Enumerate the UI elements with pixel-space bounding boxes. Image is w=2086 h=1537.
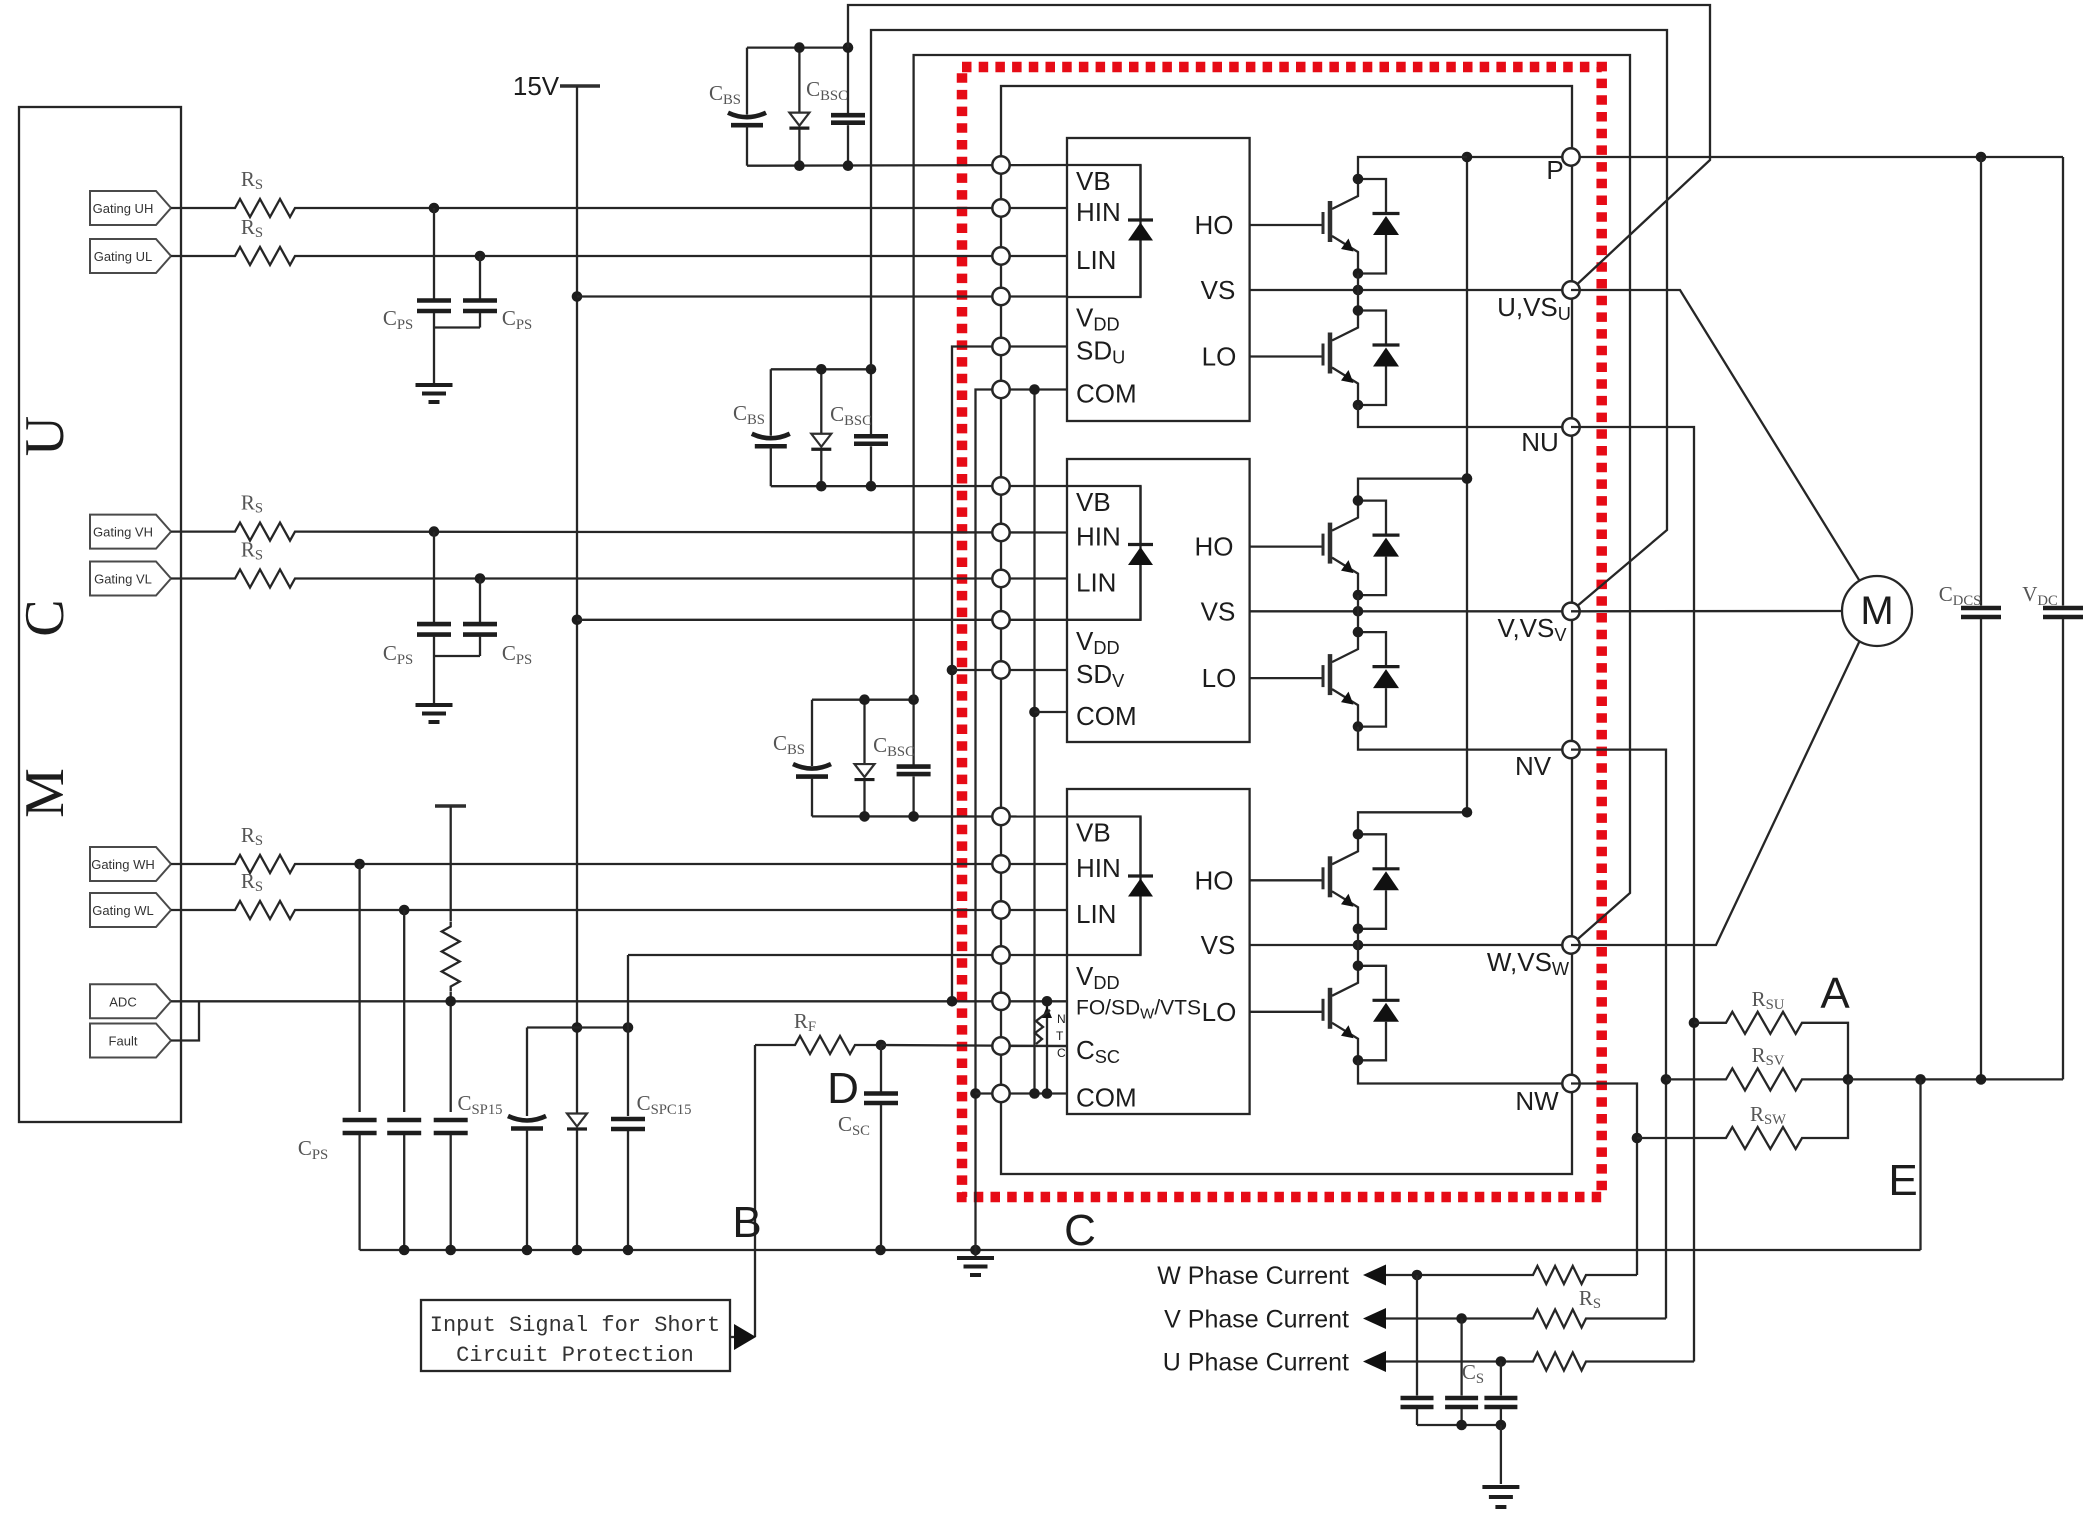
wire CSC junction to CSC pin — [881, 1045, 1067, 1046]
node bootstrap U bottom at CBSC — [843, 160, 854, 171]
capacitor Cs V — [1460, 1319, 1462, 1396]
capacitor CBS W — [811, 700, 813, 766]
node: emitter of QWH — [1353, 924, 1364, 935]
node V Phase Current filter tap — [1456, 1313, 1467, 1324]
capacitor CPS W3 — [434, 1118, 468, 1123]
node: collector of QWL — [1353, 961, 1364, 972]
capacitor CPS U-high — [433, 208, 435, 299]
arrow V Phase Current — [1363, 1308, 1386, 1329]
node P rail at CDCS — [1976, 152, 1987, 163]
ground (CPS U) — [416, 383, 453, 387]
node E tap — [1915, 1074, 1926, 1085]
node ground bus at COM3 line — [970, 1088, 981, 1099]
node 15V to VDD2 — [572, 615, 583, 626]
svg-text:Input Signal for Short: Input Signal for Short — [430, 1313, 720, 1338]
svg-text:D: D — [827, 1064, 859, 1113]
svg-text:CSC: CSC — [838, 1112, 870, 1139]
svg-text:HIN: HIN — [1076, 197, 1121, 227]
svg-text:Gating WH: Gating WH — [91, 857, 155, 872]
annotation box: Input Signal for Short Circuit Protection — [421, 1300, 730, 1371]
svg-text:CS: CS — [1462, 1360, 1484, 1387]
svg-text:CPS: CPS — [298, 1136, 328, 1163]
transistor QVH (IGBT) — [1332, 501, 1358, 531]
svg-text:NU: NU — [1521, 427, 1559, 457]
svg-text:Gating VL: Gating VL — [94, 572, 152, 587]
wire VS-V loop — [871, 30, 1667, 611]
node COM bus at COM2 — [1029, 707, 1040, 718]
svg-text:NW: NW — [1515, 1086, 1559, 1116]
transistor QWL (IGBT) — [1332, 966, 1358, 996]
node COM bus bottom — [1029, 1088, 1040, 1099]
node 15V tie to CSP15/CSPC15 — [572, 1022, 583, 1033]
node U Phase Current filter tap — [1496, 1356, 1507, 1367]
svg-text:HIN: HIN — [1076, 853, 1121, 883]
svg-text:CBS: CBS — [773, 731, 805, 758]
resistor RSV — [1666, 1078, 1721, 1080]
svg-text:A: A — [1820, 969, 1850, 1018]
capacitor CPS V-high — [433, 532, 435, 623]
node NV shunt tap — [1661, 1074, 1672, 1085]
node SD bus at FO line — [947, 996, 958, 1007]
resistor RF — [755, 1044, 790, 1046]
svg-text:Gating UH: Gating UH — [93, 201, 154, 216]
transistor QWH (IGBT) — [1332, 834, 1358, 864]
node VS at half-bridge U — [1353, 285, 1364, 296]
svg-text:RS: RS — [241, 538, 263, 564]
ground (current sense) — [1482, 1485, 1519, 1489]
antiparallel diode of QWL — [1358, 966, 1386, 1001]
wire Gating UL to IPM pin — [300, 255, 1067, 257]
IPM module outline box — [1001, 86, 1572, 1174]
wire bootstrap V top rail — [771, 368, 871, 370]
svg-text:Circuit Protection: Circuit Protection — [456, 1343, 694, 1368]
gate driver U3 input section box — [1067, 817, 1141, 956]
wire COM3 line — [976, 1092, 1068, 1094]
node COM bus top — [1029, 384, 1040, 395]
wire VS line W — [1250, 944, 1571, 946]
wire bootstrap W top rail — [812, 699, 914, 701]
svg-text:RS: RS — [241, 823, 263, 849]
wire Gating VH to IPM pin — [300, 530, 1067, 533]
svg-text:HO: HO — [1195, 210, 1234, 240]
node P bus top — [1462, 152, 1473, 163]
svg-text:CSPC15: CSPC15 — [637, 1091, 692, 1118]
svg-text:LIN: LIN — [1076, 899, 1116, 929]
wire SDV/CSC pin stubs into U3 — [1001, 1045, 1067, 1047]
svg-text:V Phase Current: V Phase Current — [1164, 1306, 1349, 1334]
svg-text:FO/SDW/VTS: FO/SDW/VTS — [1076, 996, 1201, 1022]
svg-text:LO: LO — [1202, 342, 1237, 372]
svg-text:RS: RS — [241, 491, 263, 517]
wire collector rail W — [1358, 812, 1467, 834]
wire emitter-collector link U — [1357, 274, 1359, 311]
flag Gating VH — [90, 515, 171, 549]
wire U phase to motor — [1571, 290, 1860, 581]
node bootstrap V top at diode — [816, 364, 827, 375]
resistor FO pull-up — [450, 806, 452, 921]
svg-text:VB: VB — [1076, 487, 1111, 517]
wire P bus inside IPM — [1466, 157, 1468, 812]
svg-text:RSU: RSU — [1752, 987, 1785, 1013]
svg-text:V,VSV: V,VSV — [1497, 613, 1567, 645]
gate driver U2 box — [1067, 459, 1250, 742]
wire Cs tie to ground — [1500, 1425, 1502, 1484]
wire CPS V tie — [434, 655, 480, 657]
node bootstrap V bottom at CBSC — [866, 481, 877, 492]
zener diode on 15V rail — [576, 1107, 578, 1114]
antiparallel diode of QWH — [1358, 834, 1386, 869]
diode bootstrap U — [798, 48, 800, 113]
node bootstrap U top at diode — [794, 42, 805, 53]
wire VDD3 feed — [628, 954, 1067, 956]
resistor RSW — [1637, 1137, 1721, 1139]
node SD bus at SDV — [947, 665, 958, 676]
svg-text:HO: HO — [1195, 865, 1234, 895]
svg-text:CBSC: CBSC — [806, 77, 848, 104]
capacitor CPS V-low — [479, 579, 481, 623]
node VS at half-bridge W — [1353, 940, 1364, 951]
wire main ground rail — [360, 1249, 1921, 1251]
capacitor CSP15 — [526, 1028, 528, 1117]
resistor RSU — [1694, 1022, 1721, 1024]
wire LO gate lead W — [1250, 1011, 1323, 1013]
svg-text:VS: VS — [1201, 275, 1236, 305]
wire VS line V — [1250, 610, 1571, 612]
transistor QVL (IGBT) — [1332, 632, 1358, 662]
bootstrap diode inside U1 — [1139, 165, 1141, 220]
svg-text:E: E — [1888, 1156, 1917, 1205]
node 15V to VDD1 — [572, 291, 583, 302]
capacitor CBS U — [746, 48, 748, 115]
node on Gating UL line — [475, 251, 486, 262]
wire Fault riser to ADC line — [171, 1001, 199, 1040]
wire NV line — [1358, 727, 1571, 750]
antiparallel diode of QUH — [1358, 179, 1386, 214]
svg-text:RF: RF — [794, 1009, 816, 1035]
bootstrap diode inside U3 — [1139, 817, 1141, 877]
svg-text:C: C — [1057, 1046, 1066, 1060]
resistor Rs (Gating UL) — [230, 247, 300, 265]
svg-text:VB: VB — [1076, 166, 1111, 196]
diode bootstrap W — [863, 700, 865, 764]
svg-text:SDU: SDU — [1076, 336, 1125, 368]
wire Gating WL branch down — [403, 910, 405, 1112]
antiparallel diode of QUL — [1358, 311, 1386, 346]
wire E return to ground rail — [1919, 1079, 1921, 1250]
motor M — [1842, 576, 1912, 646]
svg-text:LO: LO — [1202, 663, 1237, 693]
node: emitter of QWL — [1353, 1055, 1364, 1066]
node bootstrap U top at CBSC — [843, 42, 854, 53]
gate driver U3 box — [1067, 789, 1250, 1114]
node CDCS bottom — [1976, 1074, 1987, 1085]
resistor Rs (Gating UH) — [230, 199, 300, 217]
resistor Rs (Gating VL) — [230, 570, 300, 588]
capacitor Cs W — [1416, 1275, 1418, 1396]
wire Gating WL to resistor — [171, 909, 230, 911]
nodes on ground rail — [399, 1245, 410, 1256]
wire 15V to VDD2 pin — [577, 619, 1067, 621]
node on Gating WL line — [399, 905, 410, 916]
thermistor NTC — [1046, 1001, 1048, 1093]
svg-text:RSW: RSW — [1750, 1102, 1786, 1128]
svg-text:B: B — [732, 1198, 761, 1247]
node on Gating VL line — [475, 573, 486, 584]
wire Gating VL to IPM pin — [300, 577, 1067, 579]
wire CPS U tie — [434, 326, 480, 328]
node: collector of QVH — [1353, 495, 1364, 506]
wire Gating VL to resistor — [171, 577, 230, 579]
svg-text:VDD: VDD — [1076, 626, 1120, 658]
bootstrap diode inside U2 — [1139, 486, 1141, 545]
wire NW line — [1358, 1060, 1571, 1083]
node W Phase Current filter tap — [1412, 1270, 1423, 1281]
wire P rail — [1467, 156, 2063, 158]
node: emitter of QUH — [1353, 268, 1364, 279]
antiparallel diode of QVL — [1358, 632, 1386, 667]
node: collector of QUL — [1353, 305, 1364, 316]
gate driver U1 box — [1067, 138, 1250, 421]
wire collector rail V — [1358, 479, 1467, 501]
svg-text:VDC: VDC — [2022, 582, 2058, 609]
wire VS line U — [1250, 289, 1571, 291]
flag ADC — [90, 984, 171, 1018]
svg-text:T: T — [1056, 1029, 1064, 1043]
flag Gating UL — [90, 239, 171, 273]
svg-text:U,VSU: U,VSU — [1497, 292, 1571, 324]
wire W Phase Current line — [1386, 1274, 1528, 1276]
wire negative DC bus — [1848, 1078, 2063, 1080]
svg-text:COM: COM — [1076, 379, 1137, 409]
wire bootstrap W bottom rail to VB pin — [812, 815, 1067, 817]
node: collector of QVL — [1353, 627, 1364, 638]
svg-text:U: U — [14, 416, 76, 456]
wire bootstrap U bottom rail to VB pin — [747, 164, 1067, 167]
svg-text:VDD: VDD — [1076, 961, 1120, 993]
gate driver U2 input section box — [1067, 486, 1141, 620]
svg-text:15V: 15V — [513, 71, 560, 101]
wire Gating UH to IPM pin — [300, 207, 1067, 209]
antiparallel diode of QVH — [1358, 501, 1386, 535]
svg-text:VB: VB — [1076, 818, 1111, 848]
wire collector rail U — [1358, 157, 1467, 179]
wire SD bus to SDV pin — [952, 669, 1067, 671]
diode bootstrap V — [820, 369, 822, 433]
wire HO gate lead W — [1250, 879, 1323, 881]
wire 15V decoupling tie — [527, 1026, 628, 1028]
svg-text:RSV: RSV — [1752, 1043, 1785, 1069]
capacitor CBS V — [770, 369, 772, 435]
svg-text:Gating WL: Gating WL — [92, 903, 153, 918]
wire Gating WL to IPM pin — [300, 909, 1067, 911]
wire NU to shunt — [1571, 427, 1694, 1362]
capacitor CBSC V — [870, 369, 872, 435]
capacitor CSPC15 — [627, 955, 629, 1116]
capacitor CSC — [880, 1045, 882, 1092]
node: emitter of QUL — [1353, 400, 1364, 411]
arrow U Phase Current — [1363, 1351, 1386, 1372]
node RF/CSC junction — [876, 1040, 887, 1051]
svg-text:NV: NV — [1515, 751, 1552, 781]
node bootstrap W top at diode — [859, 694, 870, 705]
capacitor CDCS — [1980, 157, 1982, 606]
svg-text:CPS: CPS — [383, 641, 413, 668]
wire CPS V ground stem — [433, 656, 435, 705]
svg-text:W Phase Current: W Phase Current — [1157, 1262, 1349, 1290]
node NW shunt tap — [1632, 1133, 1643, 1144]
resistor Rs (U Phase Current) — [1528, 1353, 1591, 1371]
capacitor Cs U — [1500, 1362, 1502, 1396]
transistor QUH (IGBT) — [1332, 179, 1358, 209]
wire Gating WH to resistor — [171, 863, 230, 865]
wire 15V to VDD1 pin — [577, 295, 1067, 297]
IPM right terminal pins — [1562, 148, 1579, 165]
ground (main rail) — [974, 1250, 976, 1256]
svg-text:CBS: CBS — [709, 81, 741, 108]
wire NW to shunt — [1571, 1084, 1637, 1276]
wire U Phase Current line — [1386, 1360, 1528, 1362]
svg-text:CDCS: CDCS — [1939, 582, 1982, 609]
wire W phase to motor — [1571, 641, 1860, 945]
flag Gating UH — [90, 191, 171, 225]
wire COM bus — [1001, 388, 1067, 390]
svg-text:VS: VS — [1201, 596, 1236, 626]
flag Gating WH — [90, 847, 171, 881]
node bootstrap W bottom at CBSC — [908, 811, 919, 822]
wire Gating UL to resistor — [171, 255, 230, 257]
node: collector of QWH — [1353, 829, 1364, 840]
svg-text:CBS: CBS — [733, 401, 765, 428]
node VS at half-bridge V — [1353, 606, 1364, 617]
wire COM bus to U2 COM pin — [1035, 711, 1068, 713]
arrow W Phase Current — [1363, 1265, 1386, 1286]
gate driver U1 input section box — [1067, 165, 1141, 297]
svg-text:U Phase Current: U Phase Current — [1163, 1349, 1349, 1377]
wire Gating WH branch down — [358, 864, 360, 1112]
node on Gating WH line — [354, 859, 365, 870]
capacitor CBSC W — [912, 700, 914, 766]
MCU block outline — [19, 107, 181, 1122]
svg-text:C: C — [14, 599, 76, 636]
capacitor CBSC U — [847, 48, 849, 115]
svg-text:RS: RS — [241, 215, 263, 241]
flag Gating VL — [90, 562, 171, 596]
node: emitter of QVL — [1353, 721, 1364, 732]
wire emitter-collector link V — [1357, 595, 1359, 632]
capacitor CPS U-low — [479, 256, 481, 299]
resistor Rs (V Phase Current) — [1528, 1310, 1591, 1328]
wire HO gate lead V — [1250, 545, 1323, 547]
node bootstrap V bottom at diode — [816, 481, 827, 492]
wire emitter-collector link W — [1357, 929, 1359, 966]
svg-text:LIN: LIN — [1076, 568, 1116, 598]
svg-text:RS: RS — [241, 869, 263, 895]
node pull-up on ADC line — [445, 996, 456, 1007]
svg-text:LO: LO — [1202, 997, 1237, 1027]
node on Gating VH line — [429, 526, 440, 537]
red dotted IPM boundary — [962, 67, 1602, 1197]
node: emitter of QVH — [1353, 590, 1364, 601]
wire HO gate lead U — [1250, 224, 1323, 226]
capacitor CPS W1 — [343, 1118, 377, 1123]
arrow from annotation box to B node — [730, 1336, 741, 1338]
node P bus at W rail — [1462, 807, 1473, 818]
svg-text:COM: COM — [1076, 701, 1137, 731]
wire logic-ground bus — [976, 390, 1002, 1251]
wire V phase to motor — [1571, 610, 1842, 613]
wire Gating UH to resistor — [171, 207, 230, 209]
node: collector of QUH — [1353, 174, 1364, 185]
wire zener to ground rail — [576, 1140, 578, 1250]
node CSPC15 tie — [623, 1022, 634, 1033]
svg-text:CBSC: CBSC — [873, 733, 915, 760]
svg-text:CSP15: CSP15 — [457, 1091, 502, 1118]
node bootstrap W bottom at diode — [859, 811, 870, 822]
svg-text:SDV: SDV — [1076, 659, 1125, 691]
svg-text:Gating VH: Gating VH — [93, 525, 153, 540]
node bootstrap W top at CBSC — [908, 694, 919, 705]
wire 15V rail — [576, 86, 578, 1107]
wire NV to shunt — [1571, 750, 1666, 1319]
svg-text:RS: RS — [241, 167, 263, 193]
wire LO gate lead V — [1250, 677, 1323, 679]
wire ADC to FO/SDw/VTS line — [171, 1000, 1067, 1002]
IPM left terminal pins — [992, 156, 1009, 173]
svg-text:P: P — [1546, 155, 1563, 185]
svg-text:Fault: Fault — [109, 1034, 138, 1049]
wire CPS U ground stem — [433, 328, 435, 386]
node on Gating UH line — [429, 203, 440, 214]
svg-text:N: N — [1057, 1012, 1066, 1026]
svg-text:VS: VS — [1201, 930, 1236, 960]
wire Cs common tie — [1417, 1424, 1501, 1426]
node P bus at V rail — [1462, 473, 1473, 484]
wire LO gate lead U — [1250, 355, 1323, 357]
svg-text:HIN: HIN — [1076, 522, 1121, 552]
svg-text:LIN: LIN — [1076, 245, 1116, 275]
svg-text:CSC: CSC — [1076, 1035, 1120, 1067]
svg-text:M: M — [14, 768, 76, 818]
wire Gating WH to IPM pin — [300, 863, 1067, 865]
wire VS-U loop — [848, 5, 1710, 290]
svg-text:CPS: CPS — [502, 306, 532, 333]
wire bootstrap V bottom rail to VB pin — [771, 485, 1067, 488]
node bootstrap V top at CBSC — [866, 364, 877, 375]
capacitor VDC (DC source) — [2062, 157, 2064, 606]
wire B input riser — [754, 1045, 756, 1337]
svg-text:M: M — [1860, 589, 1893, 633]
svg-text:CBSC: CBSC — [830, 402, 872, 429]
node Cs tie V — [1456, 1420, 1467, 1431]
wire Gating VH to resistor — [171, 530, 230, 532]
pull-up terminal bar — [435, 804, 466, 807]
svg-text:VDD: VDD — [1076, 303, 1120, 335]
resistor Rs (Gating VH) — [230, 523, 300, 541]
wire SD bus (SDU-SDV-FO tie) — [952, 347, 1067, 1002]
svg-text:CPS: CPS — [502, 641, 532, 668]
node NU shunt tap — [1689, 1018, 1700, 1029]
svg-text:COM: COM — [1076, 1083, 1137, 1113]
flag Fault — [90, 1024, 171, 1058]
resistor Rs (Gating WH) — [230, 855, 300, 873]
svg-text:ADC: ADC — [109, 994, 136, 1009]
wire NU line — [1358, 405, 1571, 427]
resistor Rs (W Phase Current) — [1528, 1266, 1591, 1284]
svg-text:C: C — [1064, 1206, 1096, 1255]
wire bootstrap U top rail — [747, 46, 848, 48]
node bootstrap U bottom at diode — [794, 160, 805, 171]
svg-text:Gating UL: Gating UL — [94, 249, 153, 264]
